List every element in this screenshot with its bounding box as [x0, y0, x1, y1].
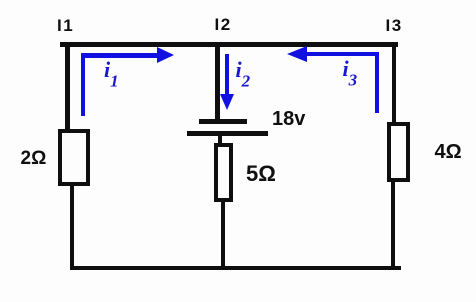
wire middle vertical lower [221, 201, 225, 266]
current arrow i1 vertical tail [81, 55, 85, 116]
resistor R3 value 4ohm [435, 142, 462, 162]
current arrow i1 head [157, 47, 174, 63]
wire right vertical lower [391, 181, 396, 270]
wire battery to R2 stub [218, 136, 222, 145]
resistor R3 4ohm [387, 122, 411, 182]
wire bottom horizontal [70, 266, 401, 271]
battery V1 positive plate [199, 119, 247, 124]
wire top horizontal [60, 42, 399, 47]
current arrow i3 vertical tail [375, 52, 379, 113]
current arrow i3 horizontal shaft [305, 52, 379, 56]
node I2 label [215, 16, 232, 33]
resistor R1 2ohm [58, 129, 90, 186]
battery V1 negative plate [187, 131, 268, 136]
current arrow i2 shaft [225, 54, 229, 95]
resistor R1 value 2ohm [21, 149, 47, 168]
battery V1 value 18v [272, 109, 305, 129]
current label i1 [104, 59, 119, 90]
wire left vertical lower [70, 185, 74, 270]
node I1 label [57, 17, 74, 34]
current label i2 [236, 59, 251, 90]
wire right vertical upper [392, 42, 397, 122]
current arrow i1 horizontal shaft [81, 53, 158, 57]
resistor R2 value 5ohm [246, 163, 276, 185]
wire left vertical upper [65, 42, 70, 130]
node I3 label [386, 17, 403, 34]
current arrow i2 head [220, 94, 234, 110]
current arrow i3 head [287, 46, 307, 62]
wire middle vertical upper [215, 46, 220, 120]
resistor R2 5ohm [214, 143, 233, 202]
current label i3 [343, 58, 358, 89]
